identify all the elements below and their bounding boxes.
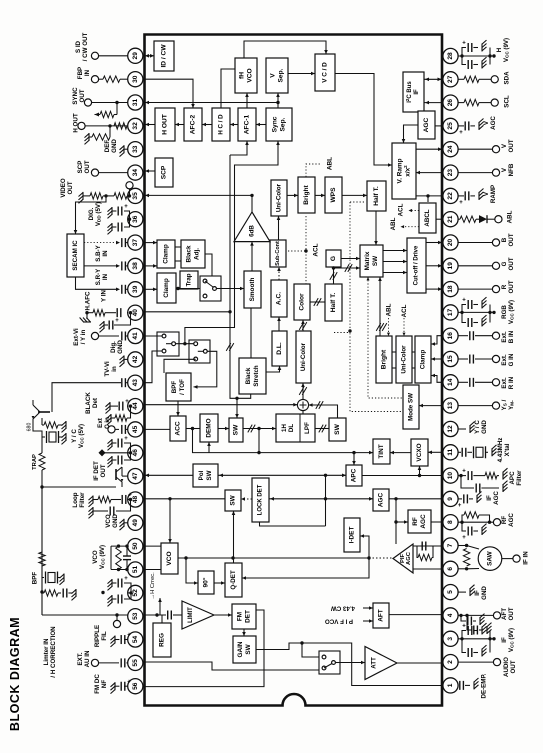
wire pin48 net: [145, 497, 226, 500]
block AFT: [373, 603, 389, 628]
wire Bright to WPS: [315, 194, 325, 198]
pin 38: [128, 258, 143, 273]
svg-text:19: 19: [447, 262, 454, 270]
svg-text:Half T.: Half T.: [373, 186, 380, 206]
label Ext R IN: [501, 376, 515, 389]
block I2C Bus IF: [403, 72, 424, 112]
svg-text:Filter: Filter: [516, 470, 523, 486]
wire Matrix to Cutoff B: [383, 271, 407, 275]
svg-text:Adj.: Adj.: [193, 248, 200, 260]
svg-text:Black: Black: [186, 245, 193, 262]
svg-text:/ CW OUT: / CW OUT: [82, 33, 89, 62]
svg-text:VCC (9V): VCC (9V): [508, 628, 515, 652]
pin 54: [128, 632, 143, 647]
svg-text:4.43MHz: 4.43MHz: [497, 438, 504, 463]
svg-text:H: H: [496, 47, 503, 52]
svg-text:RGB: RGB: [501, 305, 508, 319]
svg-text:→H Crrec.: →H Crrec.: [150, 572, 156, 600]
label TRAP: [32, 454, 38, 470]
wire VCXO to TINT: [390, 451, 411, 455]
ground DEF GND: [120, 145, 128, 156]
wire pin51 to VCO: [145, 569, 162, 571]
pin 20: [443, 235, 458, 250]
svg-text:56: 56: [132, 682, 139, 690]
wire pin55 to switch4: [145, 662, 320, 670]
pin1 deemp cap: [458, 678, 479, 690]
svg-text:+: +: [128, 492, 132, 498]
svg-text:RIPPLE: RIPPLE: [94, 625, 101, 647]
svg-text:+: +: [127, 633, 131, 639]
wire Black Stretch to D.L.: [266, 366, 281, 372]
capacitor pin43: [122, 378, 128, 387]
svg-text:ABL: ABL: [390, 217, 397, 230]
svg-text:RF: RF: [412, 517, 419, 526]
svg-text:S ID: S ID: [75, 40, 82, 53]
wire pin22 to V.Ramp: [416, 194, 442, 197]
svg-text:AU IN: AU IN: [84, 650, 91, 667]
svg-text:IF: IF: [486, 495, 493, 501]
label ACL: [313, 243, 320, 256]
label SCL: [504, 95, 511, 108]
wire Bright ext to Matrix SW: [376, 277, 387, 336]
svg-text:Cut-off / Drive: Cut-off / Drive: [414, 245, 420, 285]
svg-text:ID / CW: ID / CW: [161, 44, 168, 68]
wire SW to 1H DL: [243, 425, 276, 433]
svg-text:28: 28: [447, 52, 454, 60]
label H OUT: [73, 113, 80, 132]
svg-text:30: 30: [132, 75, 139, 83]
label IF AGC: [486, 491, 500, 505]
wire TINT input line: [193, 429, 374, 455]
svg-text:B IN: B IN: [508, 330, 515, 343]
svg-text:OUT: OUT: [510, 660, 517, 673]
terminal Ext C in: [108, 425, 128, 434]
svg-text:S.R-Y: S.R-Y: [95, 268, 102, 285]
resistor H OUT shunt: [85, 126, 111, 144]
wire Uni-Color chroma to Color: [299, 320, 307, 331]
wire AGC to pin25: [435, 125, 442, 127]
svg-text:37: 37: [132, 239, 139, 247]
svg-text:8: 8: [447, 520, 454, 524]
block Half T. (top): [367, 181, 386, 211]
svg-text:LOCK DET: LOCK DET: [258, 484, 264, 515]
svg-text:2: 2: [447, 660, 454, 664]
wire ABCL top: [427, 196, 429, 202]
svg-text:ACC: ACC: [175, 421, 182, 436]
wire to SW chroma top: [235, 398, 239, 418]
block Trap: [180, 271, 198, 289]
label DE-EMP: [481, 673, 488, 698]
pin 39: [128, 282, 143, 297]
svg-text:14: 14: [447, 378, 454, 386]
wire DEMO to SW: [218, 427, 229, 431]
wire Uni-Color ext to Bright ext: [392, 352, 396, 368]
wire to RF AGC: [396, 520, 408, 524]
svg-text:APC: APC: [351, 468, 358, 482]
block ACC: [170, 416, 186, 441]
svg-text:FBP: FBP: [77, 67, 84, 79]
wire WPS to Half T: [342, 194, 367, 198]
svg-text:VCC (5V): VCC (5V): [78, 424, 85, 448]
wire pin45 to ACC: [145, 428, 171, 430]
svg-text:Ext.: Ext.: [501, 377, 508, 389]
svg-text:Ext.: Ext.: [501, 331, 508, 343]
svg-text:34: 34: [132, 169, 139, 177]
terminal SYNC OUT: [84, 99, 127, 106]
video out network: [79, 182, 134, 204]
label ABL top: [327, 157, 334, 170]
label V NFB: [501, 163, 515, 176]
capacitor pin37: [122, 238, 128, 247]
svg-text:53: 53: [132, 612, 139, 620]
label V AGC: [483, 116, 497, 130]
wire pin39 to Clamp: [145, 288, 158, 292]
pin10 APC filter: [458, 468, 507, 492]
svg-text:9: 9: [447, 497, 454, 501]
label IF VCC 9V: [501, 628, 515, 652]
block SW (PAL): [329, 418, 346, 441]
svg-text:17: 17: [447, 308, 454, 316]
wire Half T color to G line: [330, 266, 360, 284]
wire Uni-Color to Bright: [287, 194, 298, 198]
terminal EXT AU IN: [91, 658, 127, 667]
wire switchA to Smooth: [221, 287, 244, 291]
wire ACC to DEMO: [186, 427, 200, 430]
svg-text:38: 38: [132, 262, 139, 270]
SAW network: [458, 544, 520, 571]
wire SCP to pin34: [145, 169, 156, 173]
svg-text:6dB: 6dB: [249, 225, 256, 237]
svg-text:DIG.: DIG.: [88, 207, 95, 220]
svg-text:Half T.: Half T.: [330, 293, 337, 313]
label H VCC 9V: [496, 38, 510, 62]
wire net to PIF AGC dashed: [369, 557, 393, 559]
label IF DET OUT: [93, 461, 107, 481]
dotted ABL to Bright: [306, 164, 320, 177]
label S.R-Y IN: [95, 268, 109, 285]
wire V C/D to V.Ramp: [335, 74, 392, 167]
svg-text:Ext: Ext: [97, 418, 104, 428]
block Black Adj: [181, 240, 205, 268]
svg-text:GND: GND: [481, 420, 488, 434]
VCO tank: [111, 544, 131, 571]
pin 16: [443, 328, 458, 343]
dotted Mode SW line 1: [348, 202, 402, 412]
wire FM DET to GAIN SW: [242, 629, 246, 636]
svg-text:G IN: G IN: [508, 353, 515, 366]
wire 6dB out to video line: [251, 195, 253, 212]
svg-text:Uni-Color: Uni-Color: [401, 345, 408, 374]
svg-text:/ Y in: / Y in: [80, 330, 87, 345]
wire pin44 to adder: [145, 403, 298, 407]
svg-text:39: 39: [132, 285, 139, 293]
wire line to DEMO bottom: [207, 442, 211, 453]
resistor FBP: [91, 76, 127, 83]
pin 47: [128, 469, 143, 484]
svg-text:IN: IN: [102, 250, 109, 257]
block Uni-Color (ext RGB): [396, 336, 412, 383]
pin28 vcc caps: [458, 40, 496, 69]
pin25 AGC cap: [458, 119, 483, 136]
wire pin40 H.AFC line: [145, 311, 231, 313]
svg-text:fH: fH: [239, 72, 246, 79]
block BPF/TOF: [166, 373, 191, 401]
terminal B OUT: [458, 239, 500, 246]
IC package outline with index notch: [145, 35, 443, 706]
wire REG stub: [161, 615, 163, 623]
svg-text:Uni-Color: Uni-Color: [276, 183, 283, 212]
dotted stub half-t color: [334, 332, 350, 334]
block Half T. (color): [325, 284, 342, 321]
wire Sync Sep to V Sep: [276, 93, 280, 108]
label AFT OUT: [501, 607, 515, 620]
pin3 vcc caps: [458, 623, 496, 657]
block Bright (ext RGB): [376, 336, 392, 383]
svg-text:3: 3: [447, 637, 454, 641]
label RGB VCC 9V: [501, 300, 515, 324]
SAW filter: [478, 547, 502, 571]
pin 8: [443, 515, 458, 530]
label IF IN: [523, 551, 530, 565]
svg-text:EXT.: EXT.: [77, 652, 84, 665]
label RF AGC: [501, 513, 515, 527]
svg-text:BLOCK DIAGRAM: BLOCK DIAGRAM: [8, 617, 22, 731]
pin 37: [128, 235, 143, 250]
svg-text:+: +: [124, 204, 128, 210]
svg-text:AFT: AFT: [378, 609, 385, 622]
svg-text:IF IN: IF IN: [523, 551, 530, 565]
wire LIMIT to FM DET: [214, 613, 232, 617]
svg-text:NF: NF: [101, 680, 108, 688]
block D.L.: [272, 331, 287, 366]
wire pin43 to switch1: [145, 351, 163, 383]
svg-text:1H: 1H: [281, 424, 288, 432]
svg-text:VDD (5V): VDD (5V): [95, 202, 102, 226]
svg-text:55: 55: [132, 659, 139, 667]
wire pin16 to Clamp ext: [431, 336, 442, 346]
svg-text:G: G: [330, 256, 337, 261]
pin 33: [128, 142, 143, 157]
label 4.43 CW: [331, 605, 373, 612]
wire SW PAL to adder: [309, 401, 338, 418]
wire pin13 to Mode SW: [419, 404, 442, 408]
svg-text:DE-EMP.: DE-EMP.: [481, 673, 488, 698]
svg-text:Ext-Vi: Ext-Vi: [73, 328, 80, 346]
svg-text:Mode SW: Mode SW: [408, 393, 415, 421]
label ABL ABCL: [390, 217, 397, 230]
svg-text:Black: Black: [245, 367, 252, 384]
wire FM DC NF loop: [145, 610, 265, 687]
wire AFT to pin4: [389, 614, 442, 616]
svg-text:48: 48: [132, 496, 139, 504]
wire BPF/TOF to ACC: [176, 401, 180, 416]
wire pin23 to V.Ramp: [416, 171, 442, 175]
wire H C/D top to fH VCO left: [221, 69, 235, 108]
block DEMO: [200, 414, 218, 442]
block SW (lock): [225, 490, 241, 511]
pin 14: [443, 375, 458, 390]
block APC: [346, 465, 362, 486]
svg-text:V. Ramp: V. Ramp: [397, 158, 404, 183]
pin21 ABL network: [458, 215, 502, 223]
svg-text:IF: IF: [414, 89, 420, 95]
wire GAIN SW out: [256, 641, 304, 649]
svg-text:Y / C: Y / C: [71, 429, 78, 443]
wire APC to pin10: [362, 474, 442, 477]
block fH VCO: [235, 58, 257, 93]
label 680: [27, 423, 33, 432]
wire VCXO bottom to APC line: [418, 466, 422, 476]
svg-text:90°: 90°: [202, 577, 210, 587]
pin4 AFT cap: [458, 612, 501, 635]
wire AFC-1 to fH VCO: [245, 93, 249, 108]
block GAIN SW: [233, 636, 256, 663]
svg-text:4.43 CW: 4.43 CW: [331, 605, 355, 612]
wire LPF to SW PAL: [315, 425, 329, 433]
pin 18: [443, 282, 458, 297]
wire pin38 to Clamp: [145, 264, 158, 268]
svg-text:V C / D: V C / D: [322, 62, 329, 83]
svg-text:Dig.: Dig.: [110, 341, 117, 353]
wire V.Ramp to pin24: [416, 147, 442, 151]
block Black Stretch: [239, 358, 266, 394]
pin 27: [443, 72, 458, 87]
pin 21: [443, 212, 458, 227]
svg-text:in: in: [111, 366, 118, 372]
wire H C/D to AFC-2: [202, 123, 212, 127]
wire G to Matrix SW: [341, 257, 360, 272]
resistor sync: [95, 103, 118, 118]
svg-text:SCL: SCL: [504, 95, 511, 108]
block Clamp (B-Y): [157, 240, 175, 268]
block VCO: [161, 543, 178, 574]
pin 22: [443, 188, 458, 203]
BPF network: [39, 487, 76, 615]
svg-text:26: 26: [447, 99, 454, 107]
block 1H DL / LPF: [276, 414, 315, 442]
pin 49: [128, 515, 143, 530]
pin 9: [443, 491, 458, 506]
pin 15: [443, 351, 458, 366]
wire pin29 to ID/CW: [145, 54, 155, 58]
wire switch1 to switch2: [176, 343, 194, 345]
svg-text:13: 13: [447, 402, 454, 410]
resistor H OUT series: [114, 123, 127, 129]
svg-text:WPS: WPS: [330, 187, 337, 203]
label Dig GND: [110, 340, 124, 354]
svg-text:A.C.: A.C.: [276, 292, 283, 305]
svg-text:Pol: Pol: [198, 470, 205, 480]
svg-text:Trap: Trap: [186, 273, 193, 286]
block Pol SW: [193, 464, 218, 487]
wire Uni-Color chroma to adder: [299, 383, 307, 399]
block Color: [294, 284, 310, 320]
block A.C.: [271, 280, 287, 317]
block AGC (IF): [373, 489, 389, 511]
wire Sync Sep to AFC-1: [256, 123, 266, 127]
block TINT: [373, 439, 390, 464]
svg-text:OUT: OUT: [508, 257, 515, 270]
terminal G OUT: [458, 262, 500, 269]
svg-text:OUT: OUT: [84, 160, 91, 173]
pin8 RF AGC network: [458, 512, 501, 541]
svg-text:SCP: SCP: [77, 161, 84, 174]
svg-text:OUT: OUT: [508, 607, 515, 620]
block Matrix SW: [360, 245, 383, 277]
wire H correction arrow: [158, 598, 162, 615]
wire Color to Half T color: [310, 298, 325, 306]
wire video line to pin35: [145, 194, 254, 198]
label Ys Ym: [501, 399, 515, 410]
svg-text:4: 4: [447, 613, 454, 617]
label VIDEO OUT: [60, 178, 74, 197]
svg-text:AGC: AGC: [490, 116, 497, 130]
svg-text:+: +: [462, 535, 466, 541]
pin36 Vdd caps: [108, 204, 132, 234]
svg-text:DET: DET: [244, 610, 251, 623]
svg-text:36: 36: [132, 215, 139, 223]
terminal SCP OUT: [91, 169, 127, 176]
svg-text:S.B-Y: S.B-Y: [95, 244, 102, 261]
block V Sep: [266, 58, 288, 93]
dotted ACL arrow ABCL: [409, 209, 420, 212]
svg-text:VIDEO: VIDEO: [60, 178, 67, 197]
wire I2C to pin26: [424, 101, 442, 105]
pin17 vcc caps: [458, 297, 496, 327]
wire Sub-Cont to Uni-Color: [277, 216, 281, 240]
wire chroma branch down: [258, 429, 260, 453]
svg-text:TINT: TINT: [378, 444, 385, 458]
title BLOCK DIAGRAM: [8, 617, 22, 731]
svg-text:NFB: NFB: [508, 163, 515, 176]
block H OUT: [155, 108, 175, 141]
svg-text:FM DC: FM DC: [94, 674, 101, 694]
pin 46: [128, 445, 143, 460]
pin 19: [443, 258, 458, 273]
amplifier PIF AGC: [393, 544, 413, 573]
wire pin47 line to Pol SW: [145, 474, 194, 478]
pin 55: [128, 655, 143, 670]
label V RAMP: [483, 185, 497, 203]
svg-text:VCC (9V): VCC (9V): [99, 545, 106, 569]
label Ext G IN: [501, 353, 515, 366]
block Clamp (ext RGB): [415, 336, 431, 383]
pin 53: [128, 609, 143, 624]
wire Black Adj to switchA: [205, 254, 212, 276]
block switch 2: [189, 340, 210, 363]
svg-text:32: 32: [132, 122, 139, 130]
label Xtal: [497, 438, 511, 463]
pin 40: [128, 305, 143, 320]
pin 11: [443, 445, 458, 460]
wire sync tap to Sync Sep: [183, 141, 280, 345]
block WPS: [325, 177, 342, 213]
wire adder to 1H DL: [302, 411, 304, 414]
svg-text:29: 29: [132, 52, 139, 60]
svg-text:+: +: [462, 469, 466, 475]
svg-text:24: 24: [447, 145, 454, 153]
svg-text:47: 47: [132, 472, 139, 480]
svg-text:RAMP: RAMP: [490, 185, 497, 203]
svg-text:LPF: LPF: [304, 422, 311, 434]
pin 2: [443, 655, 458, 670]
block G: [326, 250, 341, 267]
svg-text:OUT: OUT: [100, 464, 107, 477]
wire I2C to pin27: [424, 78, 442, 82]
svg-text:ACL: ACL: [313, 243, 320, 256]
label Y/C GND: [474, 420, 488, 434]
ground Y/C GND: [458, 422, 474, 433]
